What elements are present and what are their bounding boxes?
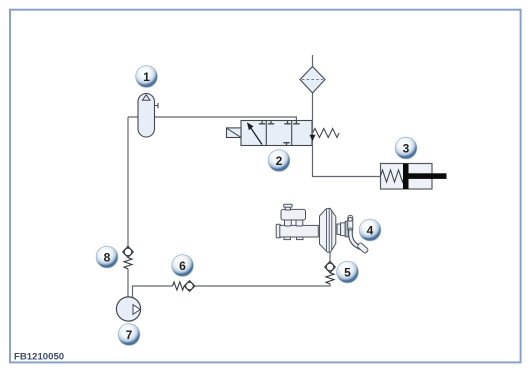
label 7 xyxy=(118,324,140,346)
label 8 xyxy=(96,246,118,268)
flow arrow on filter line xyxy=(310,135,316,142)
valve 2 return spring xyxy=(313,129,339,138)
wire check valve 6 to check valve 5 xyxy=(195,284,330,286)
svg-text:8: 8 xyxy=(104,250,111,264)
svg-text:3: 3 xyxy=(403,141,410,155)
label 4 xyxy=(359,219,381,241)
svg-text:2: 2 xyxy=(276,154,283,168)
valve 2 flow arrow xyxy=(247,122,262,144)
svg-text:5: 5 xyxy=(344,265,351,279)
label 1 xyxy=(136,66,158,88)
wire check valve 5 to brake booster xyxy=(329,252,331,261)
label 6 xyxy=(172,255,194,277)
wire pump outlet to check valve 6 xyxy=(133,286,173,298)
pump 7 xyxy=(116,297,140,321)
cylinder 3 xyxy=(381,164,447,190)
wire filter to cylinder 3 xyxy=(313,93,381,177)
check valve 5 xyxy=(325,261,336,284)
check valve 6 xyxy=(173,281,195,292)
wire check valve 8 to pump xyxy=(127,269,129,298)
svg-text:4: 4 xyxy=(367,223,374,237)
svg-text:1: 1 xyxy=(143,70,150,84)
svg-text:6: 6 xyxy=(179,259,186,273)
check valve 8 xyxy=(123,246,134,269)
label 2 xyxy=(268,150,290,172)
valve 2 body xyxy=(241,121,312,146)
wire supply line down to check valve 8 xyxy=(127,117,129,246)
brake booster assembly 4 xyxy=(276,204,369,254)
wire filter vent xyxy=(312,55,314,67)
valve 2 port marks xyxy=(259,121,300,146)
svg-text:7: 7 xyxy=(126,328,133,342)
label 5 xyxy=(337,261,359,283)
label 3 xyxy=(395,137,417,159)
accumulator 1 xyxy=(138,94,158,138)
svg-text:FB1210050: FB1210050 xyxy=(14,352,64,363)
valve 2 solenoid xyxy=(227,128,242,138)
wire accumulator feed to valve xyxy=(128,117,296,121)
filter xyxy=(300,67,325,94)
